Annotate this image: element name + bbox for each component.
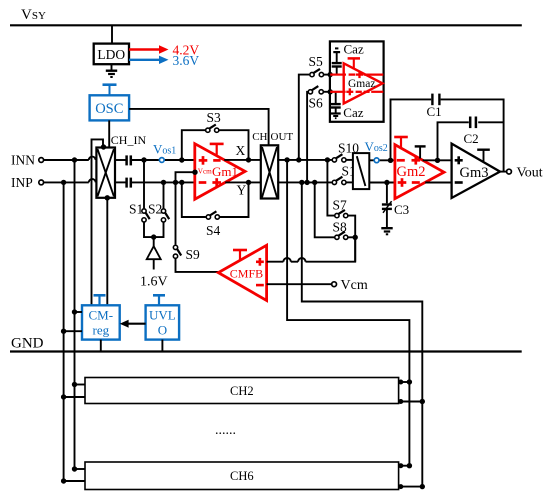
wire CH_IN bottom to CM-reg xyxy=(106,198,108,305)
wire S6 to rail Y xyxy=(307,92,308,183)
ground below LDO xyxy=(111,64,113,70)
svg-text:Gm1: Gm1 xyxy=(212,164,238,179)
wire Gmaz input bottom red xyxy=(330,91,345,93)
wire node X to channels right xyxy=(287,160,409,466)
chopper CH_IN xyxy=(96,148,115,198)
clock symbol on Gm3 xyxy=(477,148,490,150)
wire INP down to channels xyxy=(63,182,65,481)
wire S5 to rail X xyxy=(299,75,310,160)
chopper CH_OUT xyxy=(261,145,278,198)
svg-text:LDO: LDO xyxy=(97,47,125,62)
capacitor input coupling top xyxy=(115,159,126,161)
svg-text:CM-: CM- xyxy=(89,308,114,323)
capacitor C1 with wires xyxy=(391,99,432,160)
capacitor C3 to ground xyxy=(386,183,388,204)
switch S1 output xyxy=(332,180,336,184)
wire CM-reg to GND xyxy=(100,340,102,352)
svg-text:Y: Y xyxy=(237,183,247,198)
svg-text:CH2: CH2 xyxy=(230,384,254,398)
switch S6 xyxy=(308,90,312,94)
polarity marks Gm1 top xyxy=(199,159,208,162)
wire Gmaz input top red xyxy=(330,73,346,75)
op-amp CMFB xyxy=(218,245,266,300)
wire INP to chopper xyxy=(44,181,89,183)
svg-text:UVL: UVL xyxy=(149,308,176,323)
svg-text:X: X xyxy=(236,143,246,158)
op-amp Gm2 xyxy=(395,145,444,199)
svg-text:S1: S1 xyxy=(129,202,143,217)
wire OSC clock to CH_OUT chopper xyxy=(129,109,269,145)
clock symbol above UVLO xyxy=(153,294,165,297)
terminal Vout xyxy=(507,169,512,174)
block channel CH2 xyxy=(85,378,399,404)
wire CH2 left stubs xyxy=(75,384,86,386)
polarity marks Gm2 bottom xyxy=(398,181,407,184)
svg-text:Caz: Caz xyxy=(343,105,363,120)
wire rail X into Gm1 xyxy=(132,159,195,161)
svg-text:Gmaz: Gmaz xyxy=(348,78,375,90)
svg-text:CH_IN: CH_IN xyxy=(111,133,147,147)
svg-text:1.6V: 1.6V xyxy=(140,275,168,290)
svg-text:S2: S2 xyxy=(148,202,162,217)
switch S5 xyxy=(310,72,314,76)
svg-text:S5: S5 xyxy=(309,54,324,69)
wire S9 to CMFB output xyxy=(176,259,219,272)
clock symbol above OSC xyxy=(103,83,117,86)
oscillator OSC xyxy=(90,95,130,120)
svg-text:......: ...... xyxy=(215,423,236,438)
svg-text:C1: C1 xyxy=(427,104,442,119)
wire S7 right to common xyxy=(348,216,355,262)
switch S8 xyxy=(335,235,339,239)
svg-text:C3: C3 xyxy=(394,202,409,217)
wire INP tap to CM-reg xyxy=(64,330,82,332)
svg-text:OSC: OSC xyxy=(95,101,123,117)
wire INN tap to CM-reg xyxy=(75,311,83,313)
svg-text:Gm2: Gm2 xyxy=(397,164,426,180)
capacitor Caz bottom xyxy=(335,92,337,103)
junction dot S5 node xyxy=(328,72,333,77)
terminal INP xyxy=(39,180,44,185)
block track and hold xyxy=(353,153,369,189)
arrow UVLO to CM-reg xyxy=(127,323,146,325)
block CM-reg xyxy=(82,305,120,339)
polarity marks Gm3 xyxy=(455,159,463,162)
svg-text:CH6: CH6 xyxy=(230,469,254,483)
arrow 3.6V output xyxy=(129,59,161,61)
polarity marks Gm1 bottom xyxy=(199,181,207,184)
wire node Y to channels right xyxy=(302,182,423,486)
capacitor input coupling bottom xyxy=(115,181,126,183)
wire Gm2 out top to Gm3 xyxy=(423,159,452,161)
svg-text:GND: GND xyxy=(11,336,44,352)
wire VSY to LDO xyxy=(111,25,113,43)
wire CH6 left stubs xyxy=(75,468,86,470)
wire CH2 right stubs xyxy=(399,381,410,383)
switch S2 input xyxy=(163,182,165,208)
op-amp Gm3 xyxy=(452,144,500,198)
block Gmaz box xyxy=(330,41,384,121)
wire S7 to rail X xyxy=(327,160,334,216)
capacitor Caz top xyxy=(335,47,338,49)
svg-text:S6: S6 xyxy=(309,96,324,111)
svg-text:S9: S9 xyxy=(186,247,201,262)
source 1.6V reference xyxy=(147,246,161,259)
regulator LDO xyxy=(94,44,129,65)
svg-text:Gm3: Gm3 xyxy=(460,165,489,181)
switch S1 input xyxy=(143,160,145,208)
arrow 4.2V output xyxy=(129,48,161,50)
switch S9 xyxy=(173,245,177,249)
terminal Vcm xyxy=(332,282,337,287)
clock symbol black mid xyxy=(415,145,426,147)
op-amp Gmaz xyxy=(344,63,383,103)
wire OSC to CH_IN chopper xyxy=(108,120,110,147)
wire to Gm2 bottom xyxy=(369,182,395,184)
svg-text:3.6V: 3.6V xyxy=(173,53,200,68)
switch S10 xyxy=(332,158,336,162)
clock symbol on Gm2 xyxy=(394,136,408,139)
svg-text:S7: S7 xyxy=(333,198,348,213)
svg-text:C2: C2 xyxy=(464,131,479,146)
polarity marks CMFB xyxy=(256,260,264,263)
svg-text:S3: S3 xyxy=(207,110,222,125)
block channel CH6 xyxy=(85,462,399,490)
polarity marks Gm2 top xyxy=(397,159,405,162)
clock symbol on Gm1 xyxy=(210,143,224,146)
junction dot on CH_IN bottom xyxy=(105,195,110,200)
svg-text:reg: reg xyxy=(92,323,109,338)
svg-text:S4: S4 xyxy=(206,223,221,238)
wire CMFB plus input with hops xyxy=(267,261,284,263)
switch S4 xyxy=(206,215,210,219)
capacitor C2 with wires xyxy=(438,122,469,160)
wire Gm1 out X xyxy=(224,159,261,161)
wire S8 right to common xyxy=(348,236,355,238)
wire Gm3 output xyxy=(500,171,506,173)
switch S3 xyxy=(206,128,210,132)
wire rail Y into Gm1 xyxy=(132,181,195,183)
wire UVLO to GND xyxy=(161,340,163,352)
junction dot S6 node xyxy=(328,89,333,94)
wire to Gm2 top xyxy=(369,159,395,161)
svg-text:Vout: Vout xyxy=(517,166,543,181)
wire rail Y after chopper xyxy=(277,181,332,183)
switch S7 xyxy=(335,213,339,217)
svg-text:INP: INP xyxy=(11,175,33,190)
wire CH6 right stubs xyxy=(399,465,410,467)
svg-text:OUT: OUT xyxy=(271,131,294,143)
wire Vcm tap to S9 xyxy=(176,172,196,245)
svg-text:Vcm: Vcm xyxy=(198,168,212,176)
net VSY supply rail xyxy=(10,24,522,26)
wire CMFB minus input to Vcm xyxy=(267,283,332,285)
block UVLO xyxy=(146,305,180,339)
clock symbol on CMFB xyxy=(233,249,247,252)
svg-text:Caz: Caz xyxy=(344,42,364,57)
wire Gm2 out bottom to Gm3 xyxy=(425,182,451,184)
junction dots on rail X xyxy=(284,157,289,162)
wire feedback loop S3 xyxy=(182,130,205,160)
junction dot on CH_IN top xyxy=(101,144,106,149)
svg-text:INN: INN xyxy=(11,153,35,168)
wire feedback loop S4 xyxy=(182,182,206,217)
wire S8 to rail Y xyxy=(315,182,335,237)
svg-text:S8: S8 xyxy=(333,220,348,235)
svg-text:VSY: VSY xyxy=(21,7,46,23)
wire Gm1 out Y xyxy=(225,181,261,183)
svg-text:Vcm: Vcm xyxy=(341,278,368,293)
wire INN to chopper xyxy=(44,159,89,161)
clock symbol above CM-reg xyxy=(94,294,106,297)
svg-text:CMFB: CMFB xyxy=(230,267,263,281)
junction dots on rail Y xyxy=(299,180,304,185)
terminal INN xyxy=(39,158,44,163)
wire rail X after chopper xyxy=(277,159,332,161)
svg-text:CH: CH xyxy=(252,131,267,143)
svg-text:O: O xyxy=(158,323,167,338)
op-amp Gm1 xyxy=(195,144,245,200)
wire INN down to channels xyxy=(74,160,76,469)
wire S1 S2 merge xyxy=(144,223,164,238)
wire chopper clock bracket xyxy=(92,139,104,305)
clock symbol on Gmaz xyxy=(348,57,360,60)
net GND rail xyxy=(10,350,522,352)
ground below C3 xyxy=(381,227,392,229)
